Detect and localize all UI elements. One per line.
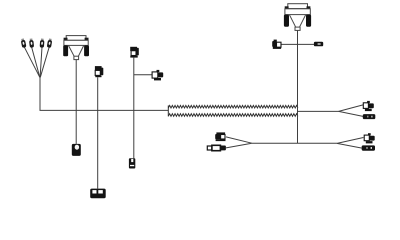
plug M [207,145,226,150]
wire from connector C down to connector D [133,58,135,159]
wire main vertical right [297,31,299,144]
connector C [130,47,139,58]
wire main bus right of tube [298,110,339,112]
connector H [363,101,374,111]
wire branch to connector E [134,74,153,76]
corrugated tube left edge [167,105,169,116]
barrel connector K [362,145,375,150]
wire from plug P1 to fan junction [24,47,40,78]
connector E [152,70,163,81]
connector J [364,133,375,143]
D-sub connector left [63,36,89,60]
connector L [215,132,225,141]
wire branch connector F to barrel G [281,43,314,45]
wire fan left down to plug M [226,143,252,148]
connector B [95,66,103,77]
connector F [272,40,281,49]
connector A [72,144,81,156]
plug P2 [29,38,34,47]
wire from connector B down to 2-pin connector [97,77,99,188]
wire from plug P4 to fan junction [40,47,49,77]
wire fan up to connector J [337,138,363,144]
wire fan up to connector H [339,105,363,112]
wire fan down to barrel I [339,111,363,116]
plug P1 [20,38,26,48]
plug P4 [47,38,53,48]
wire fan down to barrel K [337,143,362,148]
wire main bus left [40,109,169,111]
wire from D-sub left down to connector A [75,60,77,144]
corrugated tube top edge [168,105,298,108]
connector D [129,158,135,168]
plug P3 [40,38,45,47]
wire fan left up to connector L [226,137,252,143]
barrel connector G [314,42,323,47]
D-sub connector top right [284,4,311,31]
barrel connector I [363,114,376,119]
wire from plug P2 to fan junction [32,47,40,77]
2-pin connector bottom [90,189,106,199]
wire lower branch horizontal [252,142,337,144]
wire from plug P3 to fan junction [40,47,42,77]
wire fan junction drop [39,77,41,110]
corrugated tube bottom edge [168,114,298,117]
